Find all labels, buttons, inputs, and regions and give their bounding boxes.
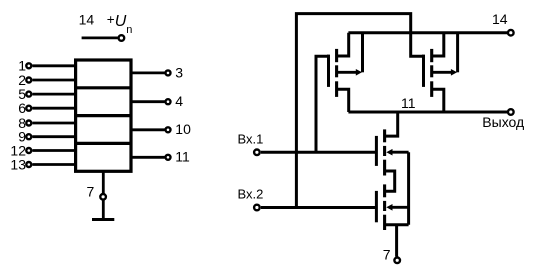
svg-text:6: 6 <box>18 100 26 116</box>
pin 4 <box>131 93 183 109</box>
transistor VT1 (p-channel, left) <box>329 33 363 112</box>
pin 7 wire <box>102 171 105 219</box>
VT2 substrate-to-rail wire <box>456 33 459 73</box>
pin 5 <box>18 86 75 102</box>
VT4 substrate arrow <box>386 204 392 211</box>
Выход terminal <box>508 109 514 115</box>
VT1 channel middle bar <box>335 65 338 77</box>
transistor VT3 (n-channel, top) <box>376 112 408 176</box>
VT2 source stub to output <box>432 89 444 112</box>
pin 11 <box>131 149 190 165</box>
Вх.2 terminal <box>254 205 260 211</box>
VT3 substrate arrow <box>386 149 392 156</box>
VT3 channel middle bar <box>383 146 386 156</box>
transistor VT4 (n-channel, bottom) <box>376 184 408 230</box>
power terminal <box>119 35 125 41</box>
wire output rail to VT3 drain <box>385 112 398 136</box>
wire Вх.1 to VT1 gate <box>316 56 329 152</box>
pin 12 <box>10 142 75 158</box>
svg-text:13: 13 <box>10 156 26 172</box>
svg-text:4: 4 <box>175 93 183 109</box>
svg-text:14: 14 <box>79 11 95 27</box>
VT1 gate bar <box>327 55 330 87</box>
VT2 gate bar <box>422 55 425 87</box>
VT1 channel bottom bar <box>335 81 338 97</box>
svg-text:7: 7 <box>87 184 95 200</box>
VT4 channel bottom bar <box>383 215 386 230</box>
power wire pin 14 <box>82 37 118 40</box>
VT1 substrate lead <box>338 71 357 74</box>
pin 2 <box>18 72 75 88</box>
wire VT4 source to pin 7 <box>395 225 398 257</box>
svg-text:Вх.1: Вх.1 <box>238 132 264 147</box>
VT1 substrate arrow <box>356 69 362 76</box>
pin 7 terminal <box>100 194 106 200</box>
gate divider 1 <box>76 86 131 89</box>
svg-text:11: 11 <box>401 95 416 111</box>
svg-text:Выход: Выход <box>482 114 524 130</box>
IC body DD1 <box>76 60 131 171</box>
VT3 channel bottom bar <box>383 160 386 176</box>
svg-text:10: 10 <box>175 121 191 137</box>
Вх.1 wire (to VT3 gate) <box>261 151 377 154</box>
VT3 gate bar <box>375 136 378 166</box>
wire Вх.2 to VT2 gate (up and over) <box>296 14 423 208</box>
VT3 channel top bar <box>383 129 386 142</box>
VT4 channel middle bar <box>383 201 386 211</box>
svg-text:11: 11 <box>175 149 190 165</box>
Вх.2 wire (to VT4 gate) <box>261 206 377 209</box>
VT1 substrate-to-rail wire <box>361 33 364 73</box>
VT4 channel top bar <box>383 184 386 197</box>
gate divider 3 <box>76 142 131 145</box>
svg-text:14: 14 <box>492 11 508 27</box>
pin 7 terminal (right) <box>394 258 400 264</box>
VT1 channel top bar <box>335 49 338 62</box>
VT1 source stub to output <box>337 89 349 112</box>
VT3 substrate lead <box>391 151 409 154</box>
VT2 substrate lead <box>433 71 452 74</box>
pin 3 <box>131 64 183 80</box>
svg-text:3: 3 <box>175 64 183 80</box>
transistor VT2 (p-channel, right) <box>424 33 458 112</box>
VT4 gate bar <box>375 191 378 222</box>
svg-text:7: 7 <box>383 246 391 262</box>
VDD rail pin 14 <box>348 31 507 34</box>
output rail node 11 <box>348 111 507 114</box>
Вх.1 terminal <box>254 150 260 156</box>
pin 6 <box>18 100 75 116</box>
chassis ground <box>92 218 114 221</box>
substrate wire VT3/VT4 to source <box>407 152 410 225</box>
pin 8 <box>18 115 75 131</box>
VT2 substrate arrow <box>451 69 457 76</box>
wire VT3 source to VT4 drain <box>385 171 395 191</box>
VT2 channel top bar <box>430 49 433 62</box>
VT1 drain stub to VDD <box>337 33 349 56</box>
VT4 source stub <box>385 223 409 226</box>
VT4 substrate lead <box>391 206 409 209</box>
VT2 channel bottom bar <box>430 81 433 97</box>
pin 10 <box>131 121 191 137</box>
pin 14 terminal <box>508 30 514 36</box>
gate divider 2 <box>76 114 131 117</box>
svg-text:Вх.2: Вх.2 <box>238 187 264 202</box>
VT2 drain stub to VDD <box>432 33 444 56</box>
pin 9 <box>18 129 75 145</box>
VT2 channel middle bar <box>430 65 433 77</box>
pin 13 <box>10 156 75 172</box>
pin 1 <box>18 58 75 74</box>
